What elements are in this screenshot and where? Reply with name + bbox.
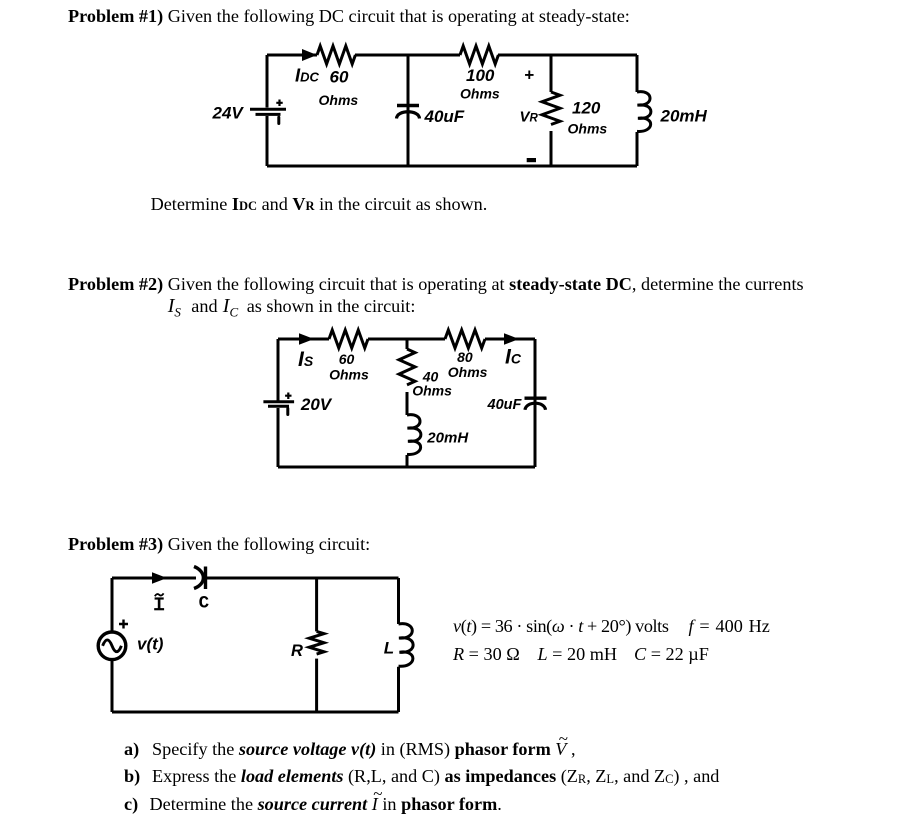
arrow Ic [504, 333, 519, 345]
wire R branch lower [315, 659, 318, 712]
svg-text:IDC: IDC [295, 65, 320, 86]
list b [124, 767, 140, 785]
svg-text:40uF: 40uF [487, 397, 523, 413]
battery 20V long plate [263, 400, 294, 403]
list a [124, 740, 139, 758]
capacitor C curved plate [194, 567, 203, 589]
battery 20V short plate [268, 405, 289, 408]
svg-text:IC: IC [505, 346, 522, 369]
wire middle branch upper [406, 339, 409, 349]
battery plus mark [285, 393, 291, 400]
wire bottom [112, 711, 399, 714]
wire left upper [266, 55, 269, 108]
svg-text:VR: VR [520, 108, 539, 125]
wire top left [278, 338, 329, 341]
wire right branch [534, 339, 537, 467]
capacitor 40uF curved plate [525, 403, 546, 410]
equations line 1 [453, 617, 669, 635]
svg-text:Ohms: Ohms [568, 121, 608, 137]
wire bottom [278, 466, 535, 469]
AC source circle [98, 632, 126, 660]
resistor 40 Ohms [399, 349, 415, 385]
resistor R [309, 631, 324, 654]
wire top left [112, 577, 196, 580]
svg-text:+: + [524, 66, 534, 85]
arrow I [152, 572, 167, 584]
capacitor C straight plate [204, 567, 207, 590]
svg-text:Ohms: Ohms [329, 366, 369, 382]
svg-text:24V: 24V [212, 104, 245, 123]
battery V1 24V long plate [250, 108, 286, 111]
equations line 2 [453, 645, 520, 663]
circuit 3 schematic [95, 558, 420, 720]
svg-text:Ohms: Ohms [319, 92, 359, 108]
AC source sine [103, 640, 122, 652]
inductor L1 20mH [637, 92, 651, 132]
wire middle branch lower [406, 455, 409, 467]
wire right upper [636, 55, 639, 92]
circuit 1 schematic [200, 40, 720, 190]
wire right lower [397, 667, 400, 712]
capacitor C1 40uF top plate [397, 104, 419, 107]
battery minus tick [286, 409, 289, 415]
capacitor 40uF top plate [525, 397, 547, 400]
battery minus tick [277, 117, 280, 123]
svg-text:40uF: 40uF [424, 107, 465, 126]
label minus VR [527, 158, 536, 162]
resistor R1 60 Ohms [317, 46, 355, 64]
Problem 3 title [68, 535, 370, 553]
svg-text:80: 80 [457, 349, 473, 365]
svg-text:IS: IS [298, 348, 314, 371]
wire top right [498, 54, 637, 57]
svg-text:R: R [291, 642, 303, 660]
inductor L [399, 624, 414, 667]
svg-text:100: 100 [466, 66, 495, 85]
wire R branch upper [315, 578, 318, 631]
svg-text:Ohms: Ohms [448, 364, 488, 380]
wire top-left segment [267, 54, 317, 57]
svg-text:v(t): v(t) [137, 635, 164, 654]
wire middle branch mid [406, 392, 409, 415]
list c [124, 795, 138, 813]
inductor 20mH [407, 415, 421, 455]
svg-text:60: 60 [339, 351, 355, 367]
resistor R3 120 Ohms [542, 92, 560, 125]
wire top middle [368, 338, 445, 341]
svg-text:60: 60 [330, 68, 349, 87]
wire top right [485, 338, 535, 341]
battery V1 short plate [256, 113, 281, 116]
svg-text:20mH: 20mH [426, 429, 469, 446]
wire top middle [355, 54, 460, 57]
svg-text:20mH: 20mH [660, 107, 708, 126]
Problem 1 title [68, 7, 630, 25]
resistor 60 Ohms [329, 330, 368, 348]
resistor R2 100 Ohms [460, 46, 498, 64]
resistor 80 Ohms [445, 330, 485, 348]
wire capacitor branch [407, 55, 410, 166]
wire bottom [267, 165, 637, 168]
Problem 2 title [68, 275, 804, 293]
wire left lower [266, 116, 269, 166]
svg-text:Ohms: Ohms [460, 86, 500, 102]
Determine line [151, 195, 488, 213]
label current I tilde [154, 593, 164, 609]
svg-text:C: C [199, 593, 210, 613]
wire left upper [111, 578, 114, 632]
battery plus mark [276, 100, 282, 107]
svg-text:L: L [384, 638, 394, 657]
circuit 2 schematic [255, 330, 565, 480]
arrow IDC current direction [302, 49, 317, 61]
svg-text:20V: 20V [300, 395, 333, 414]
capacitor C1 40uF curved plate [397, 112, 420, 119]
wire 120ohm branch upper [550, 55, 553, 92]
wire left lower [111, 660, 114, 712]
wire right lower [636, 132, 639, 166]
arrow Is [299, 333, 314, 345]
wire 120ohm branch lower [550, 131, 553, 166]
wire top right [206, 577, 399, 580]
wire left lower [277, 408, 280, 467]
svg-text:120: 120 [572, 99, 601, 118]
wire left upper [277, 339, 280, 401]
svg-text:Ohms: Ohms [412, 382, 452, 398]
wire right upper [397, 578, 400, 624]
source plus mark [119, 620, 128, 629]
